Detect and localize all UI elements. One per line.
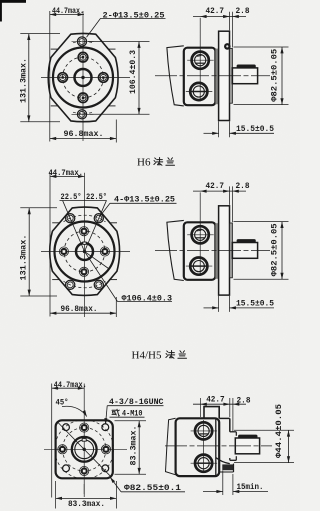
svg-text:106.4±0.3: 106.4±0.3 [128,50,138,94]
svg-text:15.5±0.5: 15.5±0.5 [236,124,274,134]
svg-text:15.5±0.5: 15.5±0.5 [236,299,274,309]
svg-text:2.8: 2.8 [236,181,250,191]
svg-text:Φ44.4±0.05: Φ44.4±0.05 [274,404,284,458]
svg-text:83.3max.: 83.3max. [68,499,105,509]
svg-text:22.5°: 22.5° [61,193,82,202]
svg-text:2-Φ13.5±0.25: 2-Φ13.5±0.25 [103,10,165,20]
svg-text:44.7max.: 44.7max. [52,6,84,16]
svg-text:42.7: 42.7 [206,395,225,405]
svg-text:45°: 45° [56,397,69,407]
svg-text:22.5°: 22.5° [86,193,107,202]
svg-text:Φ82.5±0.05: Φ82.5±0.05 [269,223,279,276]
svg-text:42.7: 42.7 [206,181,225,191]
svg-text:Φ82.55±0.1: Φ82.55±0.1 [124,483,181,493]
svg-text:15min.: 15min. [237,482,264,492]
svg-text:44.7max.: 44.7max. [49,168,84,178]
svg-text:Φ82.5±0.05: Φ82.5±0.05 [269,49,279,102]
svg-text:83.3max.: 83.3max. [129,426,139,466]
svg-text:Φ106.4±0.3: Φ106.4±0.3 [122,293,173,303]
svg-text:2.8: 2.8 [236,6,250,16]
svg-text:H4/H5: H4/H5 [132,350,162,362]
svg-text:2.8: 2.8 [237,396,251,406]
svg-text:131.3max.: 131.3max. [18,235,28,281]
svg-text:131.3max.: 131.3max. [18,58,28,103]
svg-text:44.7max.: 44.7max. [54,380,87,390]
svg-text:H6: H6 [137,157,151,169]
svg-text:42.7: 42.7 [206,6,225,16]
svg-text:4-Φ13.5±0.25: 4-Φ13.5±0.25 [114,195,175,205]
svg-text:96.8max.: 96.8max. [64,129,104,139]
svg-text:96.8max.: 96.8max. [61,304,98,314]
